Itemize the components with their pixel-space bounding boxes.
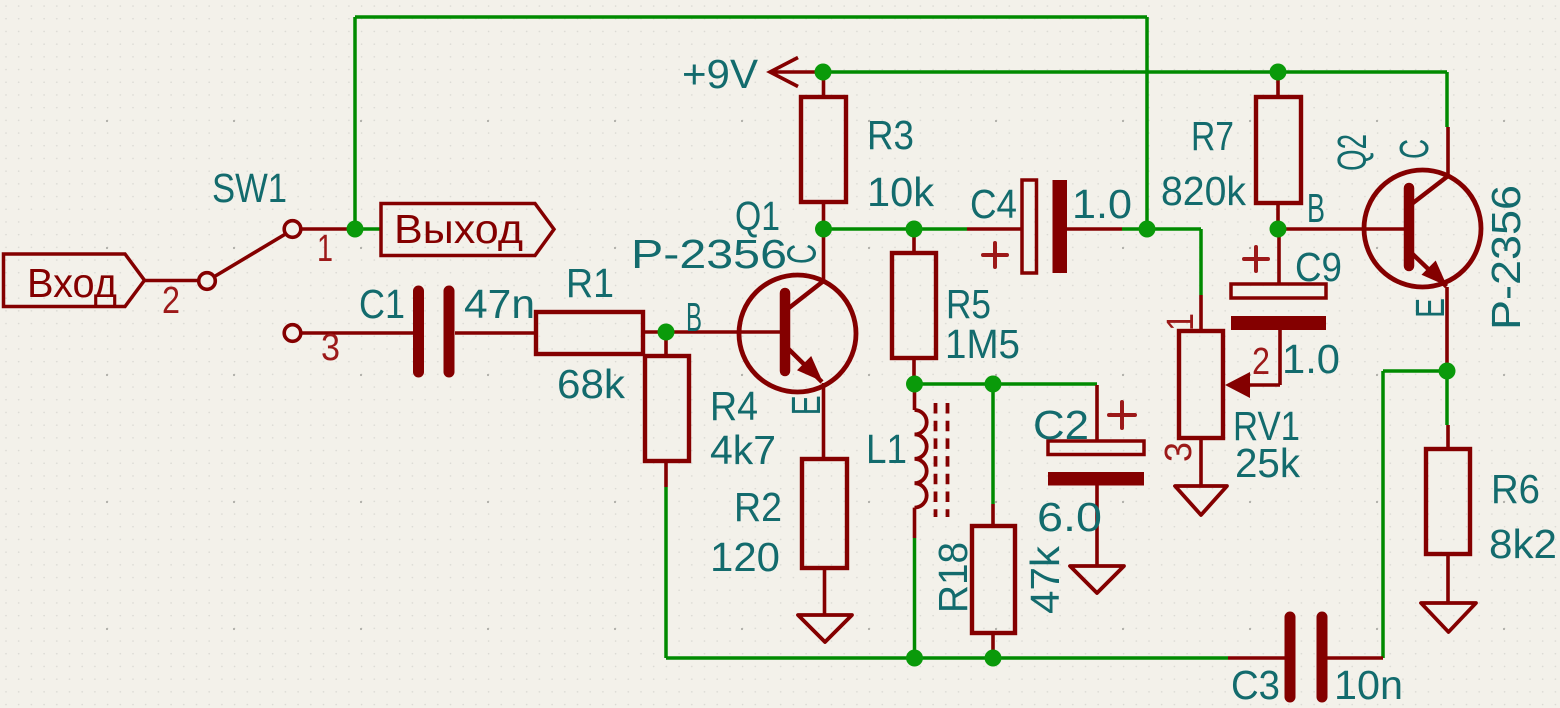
junction node C4 right	[1139, 221, 1156, 238]
potentiometer RV1 top lead	[1199, 295, 1203, 331]
svg-text:Вход: Вход	[27, 260, 117, 306]
junction node R18 top	[985, 376, 1002, 393]
resistor R18 top lead	[991, 504, 995, 526]
power symbol +9V arrow	[770, 58, 823, 87]
resistor R4 bottom lead	[664, 461, 668, 487]
ground below R6	[1421, 603, 1476, 632]
svg-text:47k: 47k	[1022, 545, 1068, 614]
resistor R1 right lead / Q1 base wire	[643, 330, 780, 334]
svg-text:L1: L1	[866, 426, 907, 472]
resistor R3 bottom lead	[822, 202, 826, 229]
ground below C2	[1070, 566, 1124, 593]
capacitor C1 left lead	[301, 331, 413, 335]
capacitor C2 top plate	[1048, 441, 1144, 455]
svg-text:1: 1	[1160, 313, 1202, 331]
hier label Выход	[381, 204, 554, 256]
capacitor C9 top lead	[1277, 229, 1281, 284]
resistor R3 body	[801, 97, 846, 202]
transistor Q2 circle	[1364, 170, 1481, 287]
transistor Q1 emitter arrow	[797, 356, 823, 382]
capacitor C1 plates	[419, 291, 450, 372]
svg-text:C: C	[1391, 139, 1437, 159]
svg-text:R7: R7	[1191, 113, 1234, 159]
svg-text:C2: C2	[1033, 402, 1089, 448]
resistor R4 body	[645, 356, 689, 461]
svg-text:3: 3	[1158, 442, 1200, 462]
svg-text:120: 120	[710, 534, 780, 580]
wire R5/L1 node to C2	[915, 382, 1098, 386]
transistor Q1 collector lead	[822, 229, 826, 280]
wire Q2 collector drop	[1445, 72, 1449, 127]
junction node +9V/R7	[1270, 64, 1287, 81]
svg-text:2: 2	[162, 280, 180, 322]
svg-text:SW1: SW1	[212, 165, 287, 211]
svg-text:P-2356: P-2356	[1483, 185, 1529, 330]
wire top rail	[355, 15, 1147, 19]
svg-text:+9V: +9V	[682, 51, 759, 97]
wire Вход to SW1 pin2	[145, 279, 199, 283]
capacitor C4 left plate	[1022, 180, 1037, 273]
resistor R7 body	[1256, 97, 1301, 203]
svg-text:8k2: 8k2	[1489, 521, 1557, 567]
svg-text:B: B	[686, 294, 702, 340]
resistor R18 bottom lead	[991, 633, 995, 655]
svg-text:R1: R1	[566, 260, 614, 306]
inductor L1 core dashed lines	[936, 403, 948, 517]
svg-text:2: 2	[1252, 341, 1270, 383]
resistor R1 body	[536, 312, 643, 354]
resistor R7 bottom lead	[1276, 203, 1280, 229]
transistor Q1 base bar	[780, 293, 791, 371]
svg-text:1M5: 1M5	[945, 321, 1020, 367]
junction node Q2 base	[1270, 221, 1287, 238]
transistor Q2 emitter lead	[1445, 287, 1449, 371]
svg-text:Q2: Q2	[1329, 134, 1375, 171]
switch SW1 pin3 circle	[284, 325, 301, 342]
svg-text:E: E	[1407, 298, 1453, 318]
RV1 wiper arrow	[1225, 372, 1250, 398]
capacitor C9 top plate	[1231, 284, 1326, 298]
svg-text:R4: R4	[710, 383, 758, 429]
resistor R5 top lead	[912, 229, 916, 253]
junction node R5 top	[906, 221, 923, 238]
wire bottom rail	[666, 656, 1228, 660]
transistor Q2 base bar	[1404, 188, 1415, 266]
capacitor C9 bottom plate	[1231, 316, 1326, 330]
switch SW1 pin2 circle	[199, 273, 216, 290]
junction node SW1/Выход	[347, 221, 364, 238]
RV1 wiper lead	[1248, 330, 1280, 385]
capacitor C4 right lead	[1067, 227, 1122, 231]
svg-text:6.0: 6.0	[1037, 494, 1102, 540]
transistor Q1 emitter diagonal	[787, 348, 822, 383]
svg-text:C4: C4	[970, 181, 1017, 227]
svg-text:C: C	[779, 244, 825, 264]
svg-text:47n: 47n	[464, 281, 535, 327]
capacitor C9 plus sign	[1244, 247, 1268, 271]
junction node L1 bottom	[906, 650, 923, 667]
svg-text:R3: R3	[867, 112, 914, 158]
transistor Q2 collector lead	[1446, 127, 1450, 175]
svg-text:B: B	[1307, 185, 1325, 231]
resistor R2 bottom lead	[823, 568, 827, 615]
svg-text:C9: C9	[1295, 244, 1342, 290]
junction node +9V/R3	[815, 64, 832, 81]
resistor R6 body	[1426, 449, 1470, 554]
capacitor C2 bottom lead	[1095, 485, 1099, 566]
inductor L1 top lead	[913, 384, 917, 410]
wire riser to Q2 emitter node	[1383, 369, 1447, 373]
wire R4 bottom drop	[664, 487, 668, 658]
svg-text:3: 3	[321, 327, 340, 369]
junction node Q1 base	[658, 324, 675, 341]
svg-text:R6: R6	[1491, 466, 1540, 512]
capacitor C3 plates	[1290, 617, 1322, 697]
transistor Q2 collector diagonal	[1411, 176, 1448, 205]
capacitor C3 left lead	[1228, 656, 1285, 660]
wire C4 to RV1 column	[1122, 227, 1201, 231]
capacitor C4 left lead	[967, 227, 1022, 231]
potentiometer RV1 body	[1179, 331, 1223, 438]
switch SW1 pin1 circle	[284, 221, 301, 238]
inductor L1 bottom lead	[913, 508, 917, 538]
wire node to Выход label	[355, 227, 382, 231]
capacitor C2 top lead	[1095, 385, 1099, 441]
svg-text:10k: 10k	[867, 169, 935, 215]
svg-text:Выход: Выход	[394, 206, 523, 252]
resistor R3 top lead	[822, 76, 826, 97]
transistor Q2 emitter diagonal	[1411, 253, 1447, 287]
wire down to RV1 pin1	[1199, 229, 1203, 295]
svg-text:1.0: 1.0	[1072, 181, 1132, 227]
switch SW1 lever	[215, 234, 286, 277]
svg-text:C3: C3	[1231, 662, 1280, 708]
resistor R6 top lead	[1446, 425, 1450, 449]
wire emitter node to R6	[1445, 371, 1449, 425]
switch SW1 pin1 stub	[301, 227, 355, 231]
svg-text:820k: 820k	[1161, 168, 1246, 214]
wire C3 right riser	[1381, 371, 1385, 658]
transistor Q1 circle	[739, 275, 856, 392]
junction node Q2 emitter	[1439, 363, 1456, 380]
svg-text:E: E	[783, 395, 829, 415]
resistor R6 bottom lead	[1446, 554, 1450, 603]
junction node Q1 collector	[815, 221, 832, 238]
capacitor C2 plus sign	[1109, 402, 1135, 428]
capacitor C3 right lead	[1327, 656, 1383, 660]
resistor R1 left lead	[455, 331, 536, 335]
resistor R2 body	[802, 459, 847, 568]
svg-text:R2: R2	[734, 484, 782, 530]
junction node L1 top	[906, 376, 923, 393]
hier label Вход	[4, 254, 145, 307]
svg-text:1.0: 1.0	[1282, 336, 1340, 382]
wire L1 bottom drop	[913, 538, 917, 658]
wire left vertical to output node	[353, 17, 357, 229]
junction node R18 bottom	[985, 650, 1002, 667]
svg-text:68k: 68k	[557, 361, 626, 407]
transistor Q2 base wire	[1278, 227, 1404, 231]
capacitor C4 plus sign	[983, 243, 1007, 267]
resistor R18 body	[972, 526, 1015, 633]
transistor Q1 collector diagonal	[787, 281, 824, 310]
svg-text:25k: 25k	[1235, 440, 1300, 486]
capacitor C2 bottom plate	[1048, 472, 1144, 486]
capacitor C4 right plate	[1053, 180, 1068, 273]
svg-text:1: 1	[317, 228, 333, 270]
svg-text:P-2356: P-2356	[631, 231, 787, 277]
resistor R7 top lead	[1276, 76, 1280, 97]
potentiometer RV1 bottom lead	[1199, 438, 1203, 486]
transistor Q2 emitter arrow	[1422, 261, 1448, 287]
ground below RV1	[1175, 486, 1227, 515]
transistor Q1 emitter lead / R2 top	[822, 383, 826, 459]
resistor R5 body	[892, 253, 936, 358]
svg-text:4k7: 4k7	[710, 427, 776, 473]
svg-text:C1: C1	[359, 281, 405, 327]
wire +9V rail	[823, 70, 1447, 74]
svg-text:10n: 10n	[1334, 662, 1403, 708]
wire node to R18 top	[991, 384, 995, 504]
resistor R4 top lead	[664, 332, 668, 356]
svg-text:R18: R18	[930, 542, 976, 613]
resistor R5 bottom lead	[912, 358, 916, 384]
wire right vertical from top rail	[1145, 17, 1149, 229]
inductor L1 winding arcs	[915, 410, 927, 508]
wire Q1 collector to C4	[824, 227, 968, 231]
ground below R2	[798, 615, 852, 642]
